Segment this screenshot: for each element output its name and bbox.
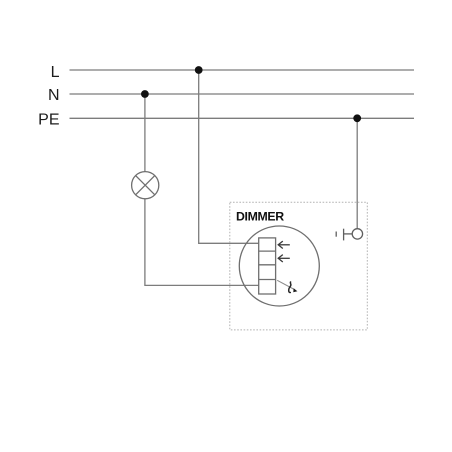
svg-text:PE: PE <box>38 112 59 129</box>
svg-text:N: N <box>48 87 60 104</box>
svg-text:DIMMER: DIMMER <box>236 210 284 224</box>
svg-text:L: L <box>51 64 60 81</box>
